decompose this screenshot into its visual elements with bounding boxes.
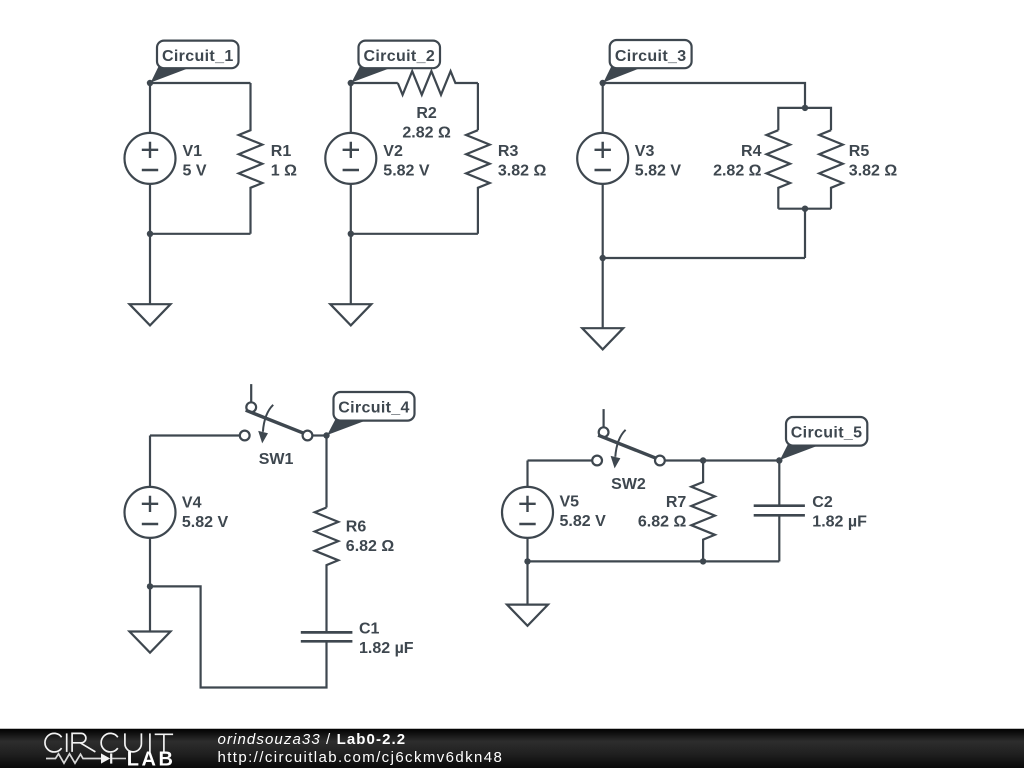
wire to ground circuit 1 — [149, 234, 151, 304]
voltage source V2 — [325, 133, 376, 184]
switch SW2 top stub wire — [602, 409, 604, 427]
ground circuit 5 — [507, 605, 548, 626]
node junction bottom circuit 3 — [600, 255, 606, 261]
wire V5 bottom lead — [526, 538, 528, 562]
label flag Circuit_1 — [151, 67, 190, 83]
svg-text:R6: R6 — [346, 519, 367, 536]
svg-text:V1: V1 — [183, 143, 203, 160]
node junction parallel top — [802, 105, 808, 111]
node junction top circuit 1 — [147, 80, 153, 86]
wire top rail circuit 2 — [351, 82, 398, 84]
wire bottom rail circuit 5 — [528, 560, 780, 562]
wire V5 top lead — [526, 461, 528, 487]
wire C2 top lead — [778, 461, 780, 506]
wire top rail circuit 5 — [528, 459, 593, 461]
wire to ground circuit 5 — [526, 561, 528, 604]
svg-text:1 Ω: 1 Ω — [271, 162, 297, 179]
wire bottom rail circuit 3 — [603, 257, 805, 259]
resistor R2 — [398, 71, 478, 95]
footer bar — [0, 729, 1024, 768]
switch SW2 blade — [598, 435, 656, 458]
svg-text:5 V: 5 V — [183, 162, 207, 179]
wire V2 top lead — [350, 83, 352, 133]
svg-text:2.82 Ω: 2.82 Ω — [713, 162, 762, 179]
svg-text:V4: V4 — [182, 494, 202, 511]
svg-text:Circuit_2: Circuit_2 — [363, 48, 435, 65]
resistor R5 — [819, 130, 843, 209]
svg-text:5.82 V: 5.82 V — [182, 514, 229, 531]
wire V1 top lead — [149, 83, 151, 133]
node junction bottom circuit 5 — [524, 558, 530, 564]
logo diode — [101, 753, 110, 763]
wire V2 bottom lead — [350, 184, 352, 234]
resistor R6 — [315, 508, 339, 633]
svg-text:6.82 Ω: 6.82 Ω — [346, 538, 395, 555]
wire V3 top lead — [602, 83, 604, 133]
wire V3 bottom lead — [602, 184, 604, 258]
voltage source V4 — [125, 487, 176, 538]
svg-text:R5: R5 — [849, 143, 870, 160]
ground circuit 3 — [582, 328, 623, 349]
wire to ground circuit 4 — [149, 586, 151, 631]
svg-text:http://circuitlab.com/cj6ckmv6: http://circuitlab.com/cj6ckmv6dkn48 — [218, 749, 504, 766]
svg-text:Circuit_5: Circuit_5 — [791, 425, 863, 442]
wire parallel branch bottom left — [778, 208, 805, 210]
wire switch to node circuit 4 — [312, 434, 326, 436]
svg-text:3.82 Ω: 3.82 Ω — [498, 162, 547, 179]
switch SW2 right terminal — [655, 456, 665, 466]
node junction top circuit 3 — [600, 80, 606, 86]
svg-text:Circuit_3: Circuit_3 — [615, 48, 687, 65]
svg-text:C1: C1 — [359, 621, 380, 638]
svg-text:C2: C2 — [812, 494, 833, 511]
resistor R3 — [466, 130, 490, 234]
switch SW2 top terminal — [599, 427, 609, 437]
wire top rail circuit 3 — [603, 83, 805, 108]
wire top rail circuit 1 — [150, 82, 251, 84]
wire switch to R7 node — [665, 459, 703, 461]
svg-text:V3: V3 — [635, 143, 655, 160]
node junction top circuit 2 — [348, 80, 354, 86]
wire to ground circuit 3 — [602, 258, 604, 328]
wire node to R6 — [325, 436, 327, 508]
wire top rail circuit 4 — [150, 434, 240, 436]
node junction bottom circuit 4 — [147, 583, 153, 589]
svg-text:R1: R1 — [271, 143, 292, 160]
svg-text:5.82 V: 5.82 V — [560, 513, 607, 530]
resistor R4 — [767, 130, 791, 209]
label flag Circuit_5 — [780, 445, 819, 461]
node junction parallel bottom — [802, 206, 808, 212]
capacitor C1 — [301, 632, 353, 641]
svg-text:2.82 Ω: 2.82 Ω — [402, 124, 451, 141]
svg-text:V5: V5 — [560, 494, 580, 511]
wire V4 bottom lead — [149, 538, 151, 587]
svg-text:Circuit_4: Circuit_4 — [338, 400, 410, 417]
svg-text:5.82 V: 5.82 V — [635, 162, 682, 179]
wire parallel branch bottom right — [805, 209, 831, 258]
logo CIRCUIT word — [45, 733, 173, 752]
ground circuit 2 — [330, 304, 371, 325]
resistor R1 — [239, 83, 263, 234]
logo resistor and wire — [46, 754, 101, 763]
wire V1 bottom lead — [149, 184, 151, 234]
wire C2 bottom lead — [778, 515, 780, 561]
svg-text:SW2: SW2 — [611, 476, 646, 493]
switch SW1 top terminal — [246, 402, 256, 412]
node junction C2 top — [776, 457, 782, 463]
wire bottom rail circuit 1 — [150, 233, 251, 235]
wire parallel branch top left — [778, 108, 805, 130]
switch SW1 blade — [246, 410, 304, 433]
svg-text:R3: R3 — [498, 143, 519, 160]
node junction bottom circuit 1 — [147, 231, 153, 237]
voltage source V1 — [125, 133, 176, 184]
voltage source V5 — [502, 487, 553, 538]
wire C1 bottom loop — [150, 586, 327, 687]
svg-text:Circuit_1: Circuit_1 — [162, 48, 234, 65]
switch SW2 actuation arrow — [615, 430, 625, 457]
ground circuit 1 — [130, 304, 171, 325]
svg-text:1.82 µF: 1.82 µF — [812, 513, 867, 530]
svg-text:R2: R2 — [416, 105, 437, 122]
svg-text:orindsouza33 / Lab0-2.2: orindsouza33 / Lab0-2.2 — [218, 731, 407, 748]
wire parallel branch top right — [805, 108, 831, 130]
switch SW2 left terminal — [592, 456, 602, 466]
switch SW1 right terminal — [303, 431, 313, 441]
wire to ground circuit 2 — [350, 234, 352, 304]
label flag Circuit_3 — [603, 66, 643, 83]
svg-text:R7: R7 — [666, 494, 687, 511]
voltage source V3 — [577, 133, 628, 184]
node junction R7 top — [700, 457, 706, 463]
svg-text:6.82 Ω: 6.82 Ω — [638, 513, 687, 530]
svg-text:R4: R4 — [741, 143, 762, 160]
wire right side circuit 2 — [477, 83, 479, 130]
node junction bottom circuit 2 — [348, 231, 354, 237]
node junction top circuit 4 — [323, 432, 329, 438]
svg-text:3.82 Ω: 3.82 Ω — [849, 162, 898, 179]
switch SW1 left terminal — [240, 431, 250, 441]
svg-text:V2: V2 — [383, 143, 403, 160]
wire R7 node to C2 node — [703, 459, 779, 461]
svg-text:5.82 V: 5.82 V — [383, 162, 430, 179]
svg-text:1.82 µF: 1.82 µF — [359, 640, 414, 657]
capacitor C2 — [754, 506, 805, 516]
resistor R7 — [691, 461, 715, 562]
node junction R7 bottom — [700, 558, 706, 564]
label flag Circuit_2 — [352, 67, 392, 83]
wire V4 top lead — [149, 436, 151, 487]
switch SW1 top stub wire — [250, 384, 252, 402]
label flag Circuit_4 — [327, 420, 366, 436]
wire bottom rail circuit 2 — [351, 233, 478, 235]
switch SW1 actuation arrow — [263, 405, 273, 432]
ground circuit 4 — [130, 632, 171, 653]
svg-text:LAB: LAB — [127, 749, 176, 768]
svg-text:SW1: SW1 — [259, 451, 294, 468]
